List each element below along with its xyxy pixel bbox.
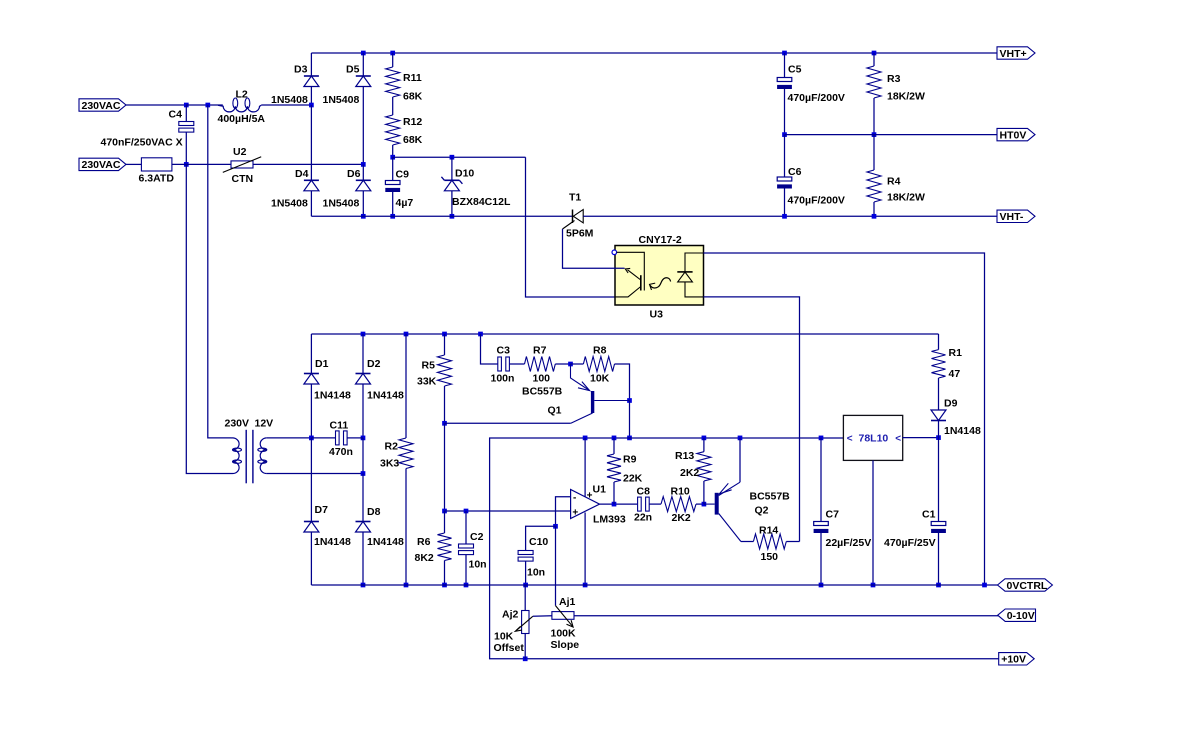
- wire: [126, 104, 186, 106]
- wire: [872, 460, 874, 585]
- wire: [525, 561, 527, 585]
- wire: [310, 384, 312, 438]
- optocoupler U3 CNY17-2: [612, 234, 704, 321]
- wire (V+ rail): [490, 438, 999, 659]
- svg-text:BC557B: BC557B: [750, 491, 791, 503]
- wire: [444, 386, 446, 423]
- wire: [392, 145, 394, 157]
- wire: [649, 503, 661, 505]
- resistor R7: [525, 345, 556, 385]
- svg-text:D4: D4: [295, 168, 309, 180]
- wire (inverting input): [556, 497, 571, 527]
- wire: [310, 438, 312, 522]
- svg-text:1N4148: 1N4148: [367, 536, 404, 548]
- svg-text:230VAC: 230VAC: [82, 100, 121, 112]
- diode D6: [323, 168, 371, 210]
- wire: [613, 482, 615, 504]
- op-amp U1 LM393: [571, 484, 626, 526]
- wire: [185, 105, 187, 122]
- wire: [310, 105, 312, 180]
- svg-text:0-10V: 0-10V: [1007, 610, 1035, 622]
- capacitor C7: [814, 509, 872, 550]
- wire: [696, 503, 704, 505]
- capacitor C8: [634, 486, 652, 524]
- svg-text:R9: R9: [623, 454, 637, 466]
- resistor R2: [380, 438, 413, 470]
- svg-text:78L10: 78L10: [859, 433, 889, 445]
- svg-text:VHT-: VHT-: [1000, 211, 1024, 223]
- wire: [126, 163, 141, 165]
- junction: [872, 132, 877, 137]
- fuse 6.3ATD: [139, 158, 175, 185]
- wire: [185, 132, 187, 164]
- wire: [392, 97, 394, 115]
- junction: [450, 214, 455, 219]
- svg-text:470µF/200V: 470µF/200V: [788, 195, 845, 207]
- wire (0-10V line): [574, 615, 998, 617]
- wire: [405, 469, 407, 586]
- diode D4: [271, 168, 319, 210]
- resistor R14: [753, 525, 786, 564]
- junction: [361, 214, 366, 219]
- svg-text:U1: U1: [593, 484, 607, 496]
- wire: [784, 135, 786, 177]
- net flag +10V: [999, 653, 1034, 666]
- resistor R1: [932, 347, 963, 380]
- svg-text:BC557B: BC557B: [522, 386, 563, 398]
- junction: [612, 436, 617, 441]
- junction: [404, 583, 409, 588]
- svg-text:68K: 68K: [403, 91, 423, 103]
- wire: [444, 511, 446, 533]
- svg-text:2K2: 2K2: [672, 512, 691, 524]
- wire: [362, 438, 364, 474]
- wire: [445, 422, 571, 424]
- junction: [464, 509, 469, 514]
- svg-text:1N5408: 1N5408: [271, 94, 308, 106]
- resistor R10: [661, 486, 696, 525]
- junction: [782, 51, 787, 56]
- junction: [361, 51, 366, 56]
- wire: [873, 53, 875, 66]
- wire: [703, 438, 705, 452]
- wire: [555, 363, 570, 365]
- wire: [873, 202, 875, 216]
- wire (0VCTRL bus): [311, 584, 997, 586]
- wire: [739, 438, 741, 482]
- wire: [267, 437, 312, 439]
- svg-text:R6: R6: [417, 536, 431, 548]
- wire: [310, 87, 312, 106]
- capacitor C2: [459, 531, 487, 571]
- capacitor C11: [329, 420, 353, 459]
- svg-text:2K2: 2K2: [680, 467, 699, 479]
- svg-text:18K/2W: 18K/2W: [887, 192, 925, 204]
- svg-text:D6: D6: [347, 168, 361, 180]
- svg-text:D8: D8: [367, 506, 381, 518]
- wire: [481, 334, 498, 364]
- wire: [392, 192, 394, 216]
- svg-text:U2: U2: [233, 146, 247, 158]
- junction: [871, 583, 876, 588]
- junction: [553, 524, 558, 529]
- svg-text:R13: R13: [675, 450, 694, 462]
- wire: [444, 334, 446, 355]
- wire: [362, 384, 364, 438]
- svg-text:+: +: [572, 508, 578, 519]
- thyristor T1: [563, 192, 594, 240]
- resistor R13: [675, 450, 711, 481]
- junction: [819, 436, 824, 441]
- wire: [938, 378, 940, 410]
- svg-text:10K: 10K: [494, 631, 514, 643]
- svg-text:R2: R2: [385, 441, 399, 453]
- wire: [938, 421, 940, 522]
- svg-text:0VCTRL: 0VCTRL: [1007, 580, 1048, 592]
- wire: [524, 585, 526, 611]
- wire: [784, 53, 786, 78]
- varistor U2 CTN: [223, 146, 261, 185]
- svg-text:8K2: 8K2: [415, 552, 434, 564]
- inductor L2: [218, 88, 266, 125]
- wire (T1 gate): [563, 229, 625, 268]
- svg-text:VHT+: VHT+: [1000, 48, 1027, 60]
- wire: [310, 53, 312, 76]
- svg-text:Slope: Slope: [551, 639, 580, 651]
- junction: [523, 583, 528, 588]
- svg-text:Aj2: Aj2: [502, 609, 519, 621]
- diode D8: [356, 506, 404, 548]
- capacitor C1: [884, 509, 946, 550]
- junction: [936, 435, 941, 440]
- capacitor C9: [385, 169, 413, 210]
- svg-text:5P6M: 5P6M: [566, 228, 594, 240]
- wire: [784, 189, 786, 217]
- svg-text:22µF/25V: 22µF/25V: [826, 537, 872, 549]
- svg-text:<: <: [895, 434, 901, 445]
- svg-text:R14: R14: [759, 525, 778, 537]
- svg-text:R11: R11: [403, 72, 422, 84]
- svg-text:1N5408: 1N5408: [323, 94, 360, 106]
- transformer TR1 230V/12V: [225, 418, 274, 484]
- svg-text:D9: D9: [944, 398, 958, 410]
- svg-text:3K3: 3K3: [380, 458, 399, 470]
- wire (VHT- bus): [311, 215, 572, 217]
- svg-text:R3: R3: [887, 73, 901, 85]
- junction: [782, 132, 787, 137]
- svg-text:C10: C10: [529, 536, 548, 548]
- wire: [786, 541, 799, 543]
- svg-text:22n: 22n: [634, 512, 652, 524]
- wire: [444, 423, 446, 511]
- svg-text:C11: C11: [330, 420, 349, 432]
- wire: [820, 533, 822, 585]
- junction: [442, 509, 447, 514]
- svg-text:Q1: Q1: [548, 405, 562, 417]
- junction: [464, 583, 469, 588]
- svg-text:LM393: LM393: [593, 514, 626, 526]
- regulator 78L10: [843, 415, 902, 460]
- wire: [600, 503, 638, 505]
- junction: [523, 656, 528, 661]
- diode D5: [323, 64, 371, 107]
- svg-text:6.3ATD: 6.3ATD: [139, 173, 175, 185]
- svg-text:D5: D5: [346, 64, 360, 76]
- wire: [704, 297, 800, 542]
- svg-text:R7: R7: [533, 345, 547, 357]
- junction: [442, 583, 447, 588]
- svg-text:C5: C5: [788, 64, 802, 76]
- diode D1: [304, 358, 351, 402]
- wire: [362, 334, 364, 374]
- wire: [524, 634, 526, 659]
- net flag 230VAC (line 2): [79, 158, 126, 171]
- svg-text:100K: 100K: [551, 628, 577, 640]
- wire: [253, 163, 363, 165]
- svg-text:1N4148: 1N4148: [944, 425, 981, 437]
- svg-text:230VAC: 230VAC: [82, 159, 121, 171]
- svg-text:Q2: Q2: [755, 505, 769, 517]
- wire (HT0V line): [785, 134, 998, 136]
- capacitor C10: [518, 536, 548, 579]
- svg-text:10n: 10n: [469, 559, 487, 571]
- wire: [362, 474, 364, 522]
- wire: [615, 364, 630, 401]
- junction: [738, 436, 743, 441]
- svg-text:D10: D10: [455, 168, 474, 180]
- wire: [310, 532, 312, 585]
- wire: [741, 541, 754, 543]
- resistor R8: [583, 345, 614, 385]
- wire: [703, 481, 705, 504]
- junction: [404, 332, 409, 337]
- net flag VHT-: [997, 210, 1035, 223]
- wire: [509, 363, 524, 365]
- svg-text:CNY17-2: CNY17-2: [639, 234, 682, 246]
- wire: [362, 532, 364, 585]
- junction: [612, 502, 617, 507]
- junction: [583, 583, 588, 588]
- resistor R9: [607, 454, 643, 485]
- svg-text:150: 150: [761, 551, 779, 563]
- junction: [450, 155, 455, 160]
- net flag 0VCTRL: [998, 579, 1053, 592]
- capacitor C6: [777, 166, 845, 207]
- svg-text:18K/2W: 18K/2W: [887, 91, 925, 103]
- wire: [873, 135, 875, 170]
- wire: [938, 334, 940, 350]
- svg-text:470n: 470n: [329, 446, 353, 458]
- svg-text:-: -: [573, 493, 576, 504]
- svg-text:470µF/200V: 470µF/200V: [788, 92, 845, 104]
- svg-text:CTN: CTN: [232, 173, 254, 185]
- svg-text:470nF/250VAC X: 470nF/250VAC X: [101, 137, 183, 149]
- svg-text:D7: D7: [315, 504, 329, 516]
- wire: [613, 438, 615, 454]
- svg-text:T1: T1: [569, 192, 581, 204]
- svg-text:<: <: [847, 434, 853, 445]
- svg-text:47: 47: [949, 368, 961, 380]
- svg-text:Aj1: Aj1: [559, 596, 576, 608]
- wire: [362, 164, 364, 180]
- diode D7: [304, 504, 351, 548]
- wire: [784, 89, 786, 135]
- svg-text:C7: C7: [826, 509, 840, 521]
- wire (wiper to U1-): [555, 526, 557, 605]
- diode D3: [271, 64, 319, 107]
- svg-text:C9: C9: [396, 169, 410, 181]
- junction: [205, 103, 210, 108]
- junction: [702, 502, 707, 507]
- junction: [361, 471, 366, 476]
- junction: [361, 332, 366, 337]
- svg-text:R1: R1: [949, 347, 963, 359]
- junction: [872, 214, 877, 219]
- wire: [362, 53, 364, 76]
- junction: [361, 162, 366, 167]
- wire (non-inverting input): [445, 510, 571, 512]
- wire: [451, 157, 453, 180]
- capacitor C4: [101, 108, 194, 148]
- wire: [820, 438, 822, 522]
- svg-text:10n: 10n: [527, 567, 545, 579]
- svg-text:BZX84C12L: BZX84C12L: [452, 196, 511, 208]
- svg-text:C2: C2: [470, 531, 484, 543]
- diode D2: [356, 358, 404, 402]
- wire: [393, 156, 526, 158]
- junction: [982, 583, 987, 588]
- junction: [184, 162, 189, 167]
- svg-text:C3: C3: [497, 345, 511, 357]
- junction: [361, 583, 366, 588]
- wire (top bus): [311, 52, 997, 54]
- wire: [362, 87, 364, 165]
- svg-text:D1: D1: [315, 358, 329, 370]
- svg-text:C1: C1: [922, 509, 936, 521]
- wire: [451, 191, 453, 217]
- zener diode D10: [441, 168, 511, 209]
- wire: [465, 555, 467, 585]
- wire: [571, 363, 584, 365]
- capacitor C5: [777, 64, 845, 105]
- wire: [186, 164, 231, 473]
- junction: [390, 155, 395, 160]
- resistor R4: [867, 170, 925, 204]
- diode D9: [931, 398, 981, 438]
- resistor R11: [386, 67, 423, 103]
- wire (U1 V-): [584, 513, 586, 586]
- junction: [478, 332, 483, 337]
- wire: [873, 98, 875, 135]
- wire: [347, 437, 363, 439]
- svg-text:12V: 12V: [255, 418, 274, 430]
- wire: [186, 104, 223, 106]
- wire: [310, 191, 312, 217]
- wire: [704, 253, 985, 585]
- svg-text:1N4148: 1N4148: [314, 536, 351, 548]
- junction: [442, 421, 447, 426]
- svg-text:1N5408: 1N5408: [271, 198, 308, 210]
- junction: [627, 436, 632, 441]
- junction: [872, 51, 877, 56]
- svg-text:1N5408: 1N5408: [323, 198, 360, 210]
- svg-text:D3: D3: [294, 64, 308, 76]
- svg-text:400µH/5A: 400µH/5A: [218, 113, 266, 125]
- junction: [782, 214, 787, 219]
- wire: [392, 157, 394, 180]
- net flag VHT+: [997, 47, 1035, 60]
- potentiometer Aj2 10K Offset: [494, 609, 533, 655]
- svg-text:68K: 68K: [403, 134, 423, 146]
- junction: [361, 436, 366, 441]
- svg-text:L2: L2: [236, 88, 248, 100]
- svg-text:4µ7: 4µ7: [396, 197, 414, 209]
- svg-text:100: 100: [533, 373, 551, 385]
- svg-text:R10: R10: [671, 486, 690, 498]
- svg-text:470µF/25V: 470µF/25V: [884, 537, 936, 549]
- wire: [526, 526, 556, 550]
- svg-text:100n: 100n: [491, 373, 515, 385]
- svg-text:U3: U3: [650, 309, 664, 321]
- resistor R3: [867, 66, 925, 103]
- junction: [568, 362, 573, 367]
- resistor R6: [415, 533, 452, 564]
- wire: [405, 334, 407, 438]
- svg-text:33K: 33K: [417, 376, 437, 388]
- net flag HT0V: [997, 128, 1035, 141]
- svg-text:1N4148: 1N4148: [367, 390, 404, 402]
- wire: [208, 105, 231, 438]
- wire: [267, 473, 363, 475]
- wire: [902, 437, 938, 439]
- svg-text:Offset: Offset: [494, 642, 525, 654]
- svg-text:C4: C4: [169, 108, 183, 120]
- svg-text:22K: 22K: [623, 473, 643, 485]
- transistor Q1 BC557B: [522, 364, 630, 423]
- wire: [172, 163, 231, 165]
- capacitor C3: [491, 345, 515, 385]
- wire: [629, 401, 631, 438]
- wire: [526, 157, 616, 297]
- svg-text:R8: R8: [593, 345, 607, 357]
- svg-text:R4: R4: [887, 176, 901, 188]
- junction: [627, 398, 632, 403]
- wire: [533, 615, 552, 618]
- wire: [362, 191, 364, 217]
- wire: [444, 561, 446, 586]
- junction: [936, 583, 941, 588]
- transistor Q2 BC557B: [704, 482, 790, 541]
- junction: [390, 51, 395, 56]
- wire: [392, 53, 394, 67]
- wire: [465, 511, 467, 544]
- svg-text:+10V: +10V: [1001, 654, 1026, 666]
- wire: [311, 437, 335, 439]
- wire (U1 V+): [584, 438, 586, 497]
- svg-text:C6: C6: [788, 166, 802, 178]
- svg-text:230V: 230V: [225, 418, 250, 430]
- potentiometer Aj1 100K Slope: [551, 596, 580, 651]
- svg-text:10K: 10K: [590, 373, 610, 385]
- svg-text:R12: R12: [403, 116, 422, 128]
- wire (DC+ bus): [311, 333, 938, 335]
- svg-text:R5: R5: [422, 360, 436, 372]
- net flag 0-10V: [998, 609, 1036, 622]
- svg-text:1N4148: 1N4148: [314, 390, 351, 402]
- junction: [583, 436, 588, 441]
- wire: [583, 215, 997, 217]
- junction: [819, 583, 824, 588]
